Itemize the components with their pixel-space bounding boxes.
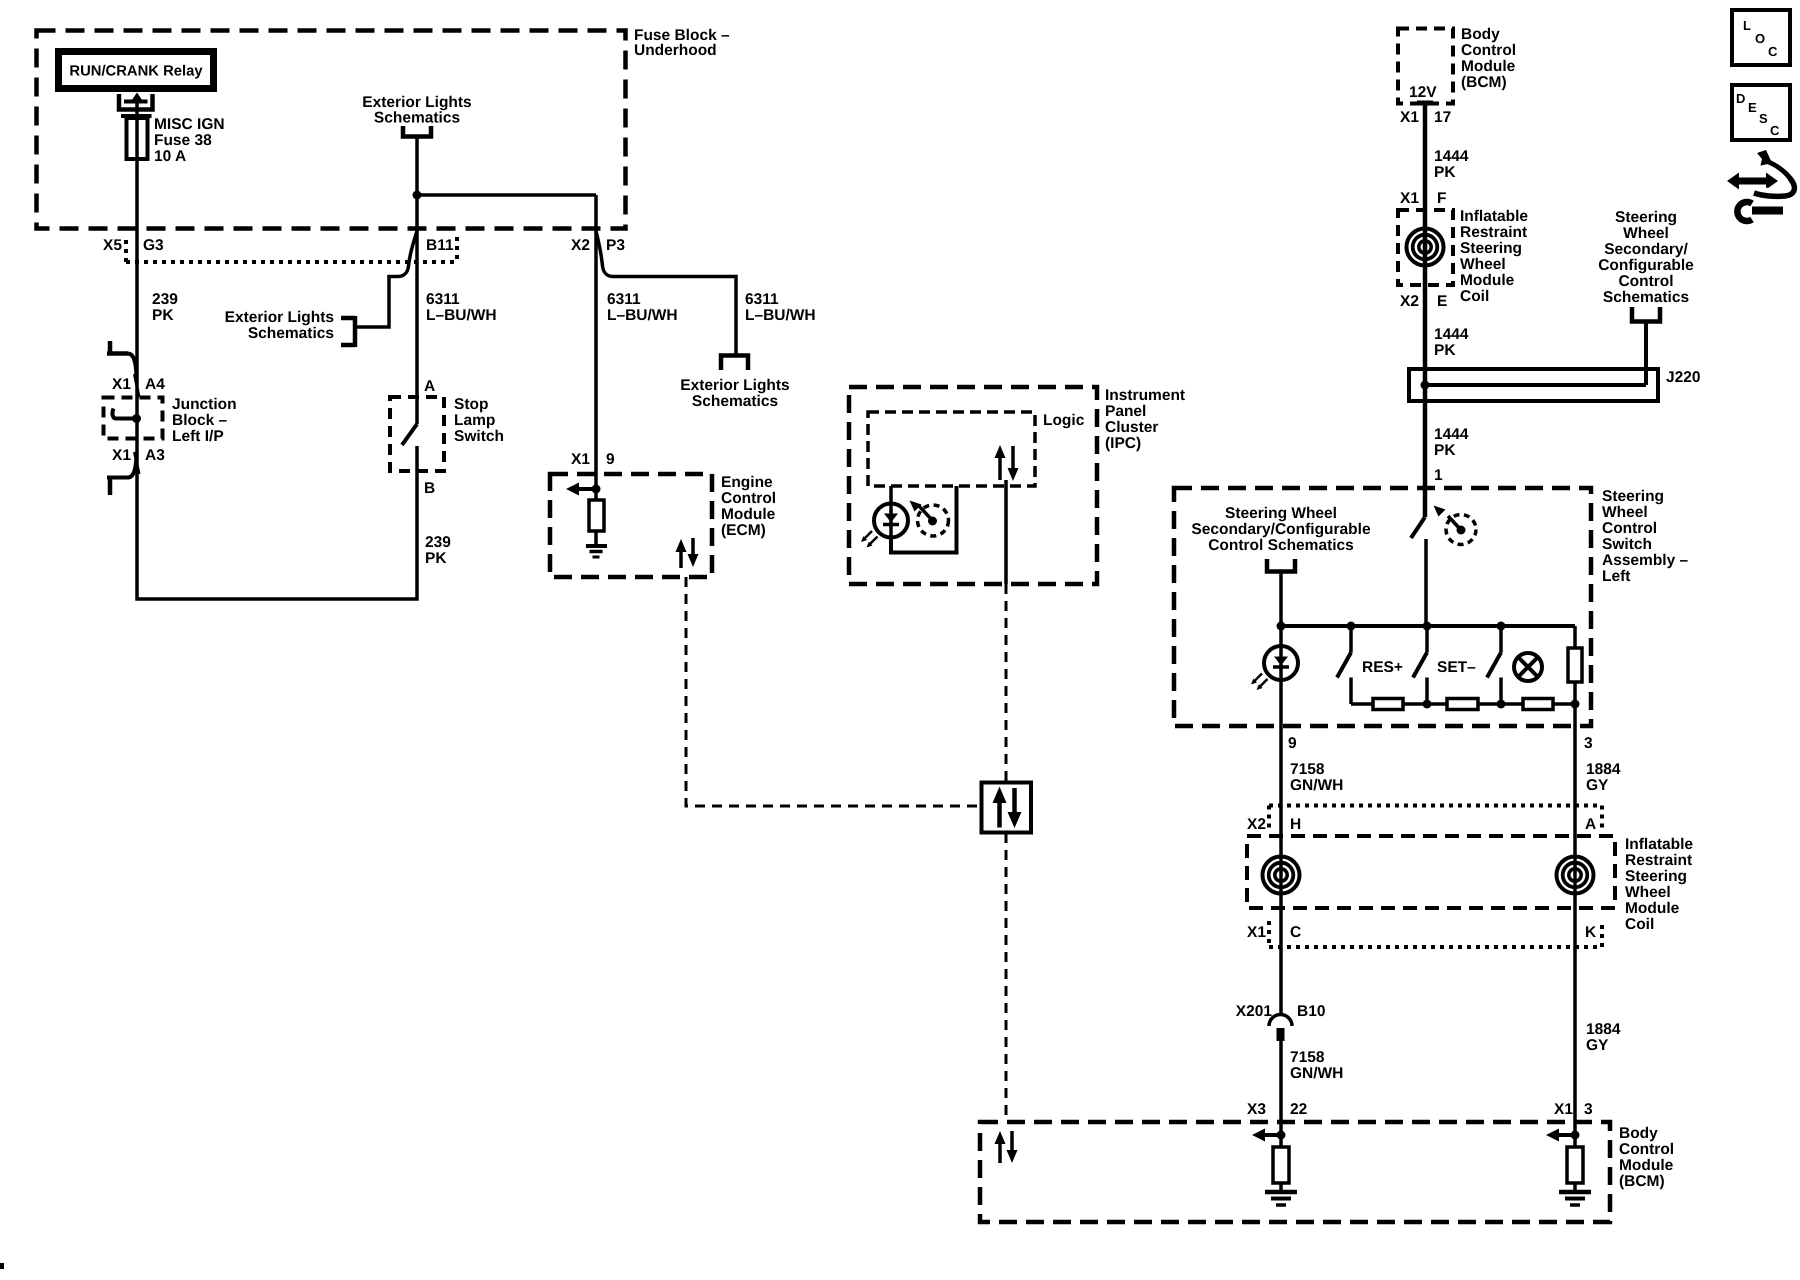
svg-text:1444: 1444 [1434, 426, 1469, 443]
serial data dashed wire IPC down [1005, 584, 1008, 782]
ECM internal node dot [592, 485, 601, 494]
svg-text:B10: B10 [1297, 1003, 1325, 1020]
svg-text:22: 22 [1290, 1101, 1307, 1118]
svg-text:L: L [1743, 18, 1751, 33]
SRS coil spiral lower left [1263, 857, 1300, 894]
ladder resistor R1 [1373, 699, 1403, 710]
node dot bus third [1497, 622, 1506, 631]
svg-text:C: C [1290, 924, 1301, 941]
wire label 6311 L-BU/WH at B11 [426, 291, 497, 324]
steering wheel secondary schematics label inner [1191, 505, 1371, 554]
svg-text:1444: 1444 [1434, 326, 1469, 343]
BCM label lower [1619, 1125, 1674, 1190]
svg-text:GN/WH: GN/WH [1290, 1065, 1343, 1082]
fuse F38 value label [154, 116, 225, 165]
svg-text:X1: X1 [1554, 1101, 1573, 1118]
svg-text:Left I/P: Left I/P [172, 428, 224, 445]
svg-text:Lamp: Lamp [454, 412, 495, 429]
svg-text:RES+: RES+ [1362, 659, 1403, 676]
splice pack J220 [1409, 369, 1658, 401]
wire label 1444 PK third [1434, 426, 1469, 459]
third switch [1487, 626, 1501, 704]
svg-text:Schematics: Schematics [692, 393, 778, 410]
wire to ground left [1279, 1183, 1283, 1192]
svg-text:J220: J220 [1666, 369, 1700, 386]
wire resistor to ground [594, 531, 598, 546]
svg-text:6311: 6311 [426, 291, 460, 308]
legend wrench icon [1737, 202, 1783, 221]
wire junction to P3 [417, 193, 596, 197]
wire switch to bus [1424, 539, 1428, 626]
svg-text:Module: Module [1461, 58, 1516, 75]
wire 6311 down to ECM [594, 195, 598, 500]
svg-text:Stop: Stop [454, 396, 488, 413]
cruise on-off gauge symbol [1446, 515, 1476, 545]
svg-text:Body: Body [1461, 26, 1500, 43]
svg-text:Assembly –: Assembly – [1602, 552, 1689, 569]
svg-text:Coil: Coil [1625, 916, 1654, 933]
svg-text:X1: X1 [1247, 924, 1266, 941]
svg-text:X3: X3 [1247, 1101, 1266, 1118]
vertical resistor right branch [1568, 648, 1582, 682]
svg-text:GY: GY [1586, 1037, 1609, 1054]
svg-text:9: 9 [1288, 735, 1297, 752]
svg-text:A: A [1585, 816, 1596, 833]
IP harness connector dotted line [126, 237, 457, 262]
svg-text:G3: G3 [143, 237, 164, 254]
svg-text:MISC IGN: MISC IGN [154, 116, 225, 133]
exterior lights schematics label top [362, 94, 471, 127]
svg-text:1444: 1444 [1434, 148, 1469, 165]
svg-text:Exterior Lights: Exterior Lights [680, 377, 789, 394]
wire label 6311 L-BU/WH right branch [745, 291, 816, 324]
ECM label [721, 474, 776, 539]
stop lamp switch label [454, 396, 504, 445]
BCM 12V source dashed box [1398, 29, 1453, 104]
svg-text:X2: X2 [571, 237, 590, 254]
connector clip lower [107, 455, 137, 495]
BCM serial data arrows [995, 1131, 1018, 1163]
svg-text:Control: Control [721, 490, 776, 507]
BCM output tick [1417, 101, 1433, 106]
exterior lights schematics label right [680, 377, 789, 410]
svg-text:Control: Control [1619, 1141, 1674, 1158]
svg-text:Wheel: Wheel [1623, 225, 1669, 242]
steering wheel secondary schematics label top right [1598, 209, 1694, 306]
svg-text:Fuse 38: Fuse 38 [154, 132, 212, 149]
svg-text:Configurable: Configurable [1598, 257, 1694, 274]
wire jog at B11 to left branch [357, 231, 417, 327]
svg-text:Body: Body [1619, 1125, 1658, 1142]
svg-text:Schematics: Schematics [374, 110, 460, 127]
svg-text:Restraint: Restraint [1625, 852, 1692, 869]
wire label 7158 GN/WH lower [1290, 1049, 1343, 1082]
svg-text:12V: 12V [1409, 84, 1437, 101]
svg-text:Control Schematics: Control Schematics [1208, 537, 1354, 554]
svg-text:Module: Module [1625, 900, 1680, 917]
cruise on-off switch actuation arrow [1434, 506, 1446, 517]
resistor ladder row wire [1351, 702, 1575, 706]
svg-text:Inflatable: Inflatable [1460, 208, 1528, 225]
node junction dot [413, 191, 422, 200]
svg-text:P3: P3 [606, 237, 625, 254]
svg-text:Schematics: Schematics [1603, 289, 1689, 306]
svg-text:X1: X1 [571, 451, 590, 468]
svg-text:Control: Control [1618, 273, 1673, 290]
node dot bus SET [1423, 622, 1432, 631]
svg-text:Schematics: Schematics [248, 325, 334, 342]
wire label 6311 L-BU/WH at P3 [607, 291, 678, 324]
svg-text:Control: Control [1461, 42, 1516, 59]
SRS coil dashed box upper [1398, 210, 1453, 285]
relay contact symbol [119, 93, 153, 110]
IPC gauge symbol [910, 501, 949, 537]
serial data dashed wire ECM to gateway [686, 577, 981, 806]
svg-text:X1: X1 [112, 447, 131, 464]
svg-text:E: E [1437, 293, 1447, 310]
svg-text:GY: GY [1586, 777, 1609, 794]
cruise on-off switch blade [1411, 517, 1425, 538]
svg-text:17: 17 [1434, 109, 1451, 126]
svg-text:X2: X2 [1400, 293, 1419, 310]
svg-text:239: 239 [425, 534, 451, 551]
LOC legend box [1732, 10, 1790, 65]
junction block label [172, 396, 237, 445]
legend two-way arrow icon [1727, 150, 1794, 196]
svg-text:Secondary/Configurable: Secondary/Configurable [1191, 521, 1371, 538]
BCM right resistor [1567, 1147, 1583, 1183]
BCM dashed box lower [980, 1122, 1610, 1222]
svg-text:PK: PK [1434, 342, 1456, 359]
svg-text:X1: X1 [1400, 109, 1419, 126]
wire jog at P3 to right branch [596, 231, 736, 355]
svg-text:Exterior Lights: Exterior Lights [362, 94, 471, 111]
BCM left signal arrow [1252, 1129, 1281, 1142]
svg-text:3: 3 [1584, 735, 1593, 752]
svg-text:(BCM): (BCM) [1461, 74, 1507, 91]
svg-text:L–BU/WH: L–BU/WH [745, 307, 816, 324]
svg-text:H: H [1290, 816, 1301, 833]
BCM right input node dot [1571, 1131, 1580, 1140]
page edge mark [0, 1263, 4, 1269]
wire label 1444 PK [1434, 148, 1469, 181]
svg-text:6311: 6311 [607, 291, 641, 308]
svg-text:(BCM): (BCM) [1619, 1173, 1665, 1190]
SRS coil label upper [1460, 208, 1528, 305]
switch assembly label [1602, 488, 1689, 585]
fuse F38 MISC IGN 10A [121, 116, 152, 159]
svg-text:7158: 7158 [1290, 761, 1325, 778]
wire resistor to row [1573, 682, 1577, 704]
junction block terminal symbol [112, 409, 141, 424]
svg-text:X5: X5 [103, 237, 122, 254]
ECM pull-up resistor [589, 500, 604, 531]
svg-text:(ECM): (ECM) [721, 522, 766, 539]
svg-text:Module: Module [721, 506, 776, 523]
svg-text:6311: 6311 [745, 291, 779, 308]
svg-text:Engine: Engine [721, 474, 773, 491]
svg-text:X201: X201 [1236, 1003, 1273, 1020]
wire label 1884 GY lower [1586, 1021, 1621, 1054]
IPC indicator loop wire [891, 486, 957, 553]
svg-text:Secondary/: Secondary/ [1604, 241, 1688, 258]
svg-text:Control: Control [1602, 520, 1657, 537]
svg-text:PK: PK [1434, 442, 1456, 459]
svg-text:E: E [1748, 100, 1757, 115]
switch LED indicator [1251, 646, 1298, 690]
svg-text:Module: Module [1460, 272, 1515, 289]
wire 7158 GN/WH left leg [1279, 572, 1283, 1016]
node dot row right [1571, 700, 1580, 709]
svg-text:9: 9 [606, 451, 615, 468]
wire jog at X1 A4 [135, 374, 140, 397]
BCM right ground [1559, 1192, 1591, 1205]
svg-text:Exterior Lights: Exterior Lights [225, 309, 334, 326]
wire label 1444 PK second [1434, 326, 1469, 359]
svg-text:GN/WH: GN/WH [1290, 777, 1343, 794]
svg-text:D: D [1736, 91, 1745, 106]
ladder resistor R2 [1447, 699, 1478, 710]
wire label 1884 GY [1586, 761, 1621, 794]
wire logic to IPC edge [1004, 480, 1008, 584]
svg-text:Block –: Block – [172, 412, 228, 429]
svg-text:RUN/CRANK Relay: RUN/CRANK Relay [69, 64, 203, 80]
off-page bracket steering wheel top right [1632, 307, 1660, 322]
relay K RUN/CRANK Relay label box [59, 52, 214, 89]
ECM internal ground [586, 546, 607, 557]
gateway arrows [993, 787, 1022, 829]
BCM top label [1461, 26, 1516, 91]
coil connector dotted line X2 [1269, 806, 1602, 832]
svg-text:C: C [1768, 44, 1778, 59]
coil connector dotted line X1 [1269, 921, 1602, 947]
svg-text:Module: Module [1619, 1157, 1674, 1174]
svg-text:SET–: SET– [1437, 659, 1476, 676]
svg-text:A3: A3 [145, 447, 165, 464]
wire 1884 GY right leg [1573, 704, 1577, 1147]
svg-text:L–BU/WH: L–BU/WH [426, 307, 497, 324]
svg-text:Switch: Switch [1602, 536, 1652, 553]
svg-text:Cluster: Cluster [1105, 419, 1158, 436]
BCM left input node dot [1277, 1131, 1286, 1140]
svg-text:C: C [1770, 123, 1780, 138]
svg-text:3: 3 [1584, 1101, 1593, 1118]
svg-text:Steering: Steering [1615, 209, 1677, 226]
svg-text:X1: X1 [1400, 190, 1419, 207]
svg-text:Inflatable: Inflatable [1625, 836, 1693, 853]
svg-text:Steering: Steering [1602, 488, 1664, 505]
svg-text:Logic: Logic [1043, 412, 1085, 429]
ECM signal arrow [566, 483, 596, 496]
connector clip upper [107, 341, 137, 377]
svg-text:Coil: Coil [1460, 288, 1489, 305]
svg-text:PK: PK [152, 307, 174, 324]
stop lamp switch dashed box [390, 397, 444, 471]
wire relay to fuse [135, 102, 139, 161]
BCM right signal arrow [1546, 1129, 1575, 1142]
pass-through connector X201 B10 [1269, 1015, 1292, 1042]
off-page bracket exterior lights top [403, 126, 431, 137]
svg-text:F: F [1437, 190, 1446, 207]
IPC indicator branch wire [889, 486, 893, 537]
wire jog at X1 A3 [135, 452, 140, 474]
svg-text:B11: B11 [426, 237, 454, 254]
svg-text:X1: X1 [112, 376, 131, 393]
svg-text:Junction: Junction [172, 396, 237, 413]
svg-text:Wheel: Wheel [1460, 256, 1506, 273]
node dot row third [1497, 700, 1506, 709]
svg-text:PK: PK [425, 550, 447, 567]
SRS coil module label lower [1625, 836, 1693, 933]
svg-text:A4: A4 [145, 376, 165, 393]
wire to ground right [1573, 1183, 1577, 1192]
SRS coil spiral lower right [1557, 857, 1594, 894]
SET- switch [1413, 626, 1427, 704]
svg-text:10 A: 10 A [154, 148, 186, 165]
ladder resistor R3 [1523, 699, 1553, 710]
wire label 7158 GN/WH [1290, 761, 1343, 794]
node dot bus LED [1277, 622, 1286, 631]
off-page bracket exterior lights right [721, 356, 748, 371]
SRS coil module dashed box lower [1247, 836, 1615, 908]
wire label 239 PK [152, 291, 178, 324]
fuse block - underhood dashed box [37, 31, 626, 229]
BCM left resistor [1273, 1147, 1289, 1183]
DESC legend box [1732, 85, 1790, 140]
logic serial data arrows [995, 445, 1019, 481]
illumination lamp symbol [1514, 653, 1542, 681]
svg-text:Panel: Panel [1105, 403, 1146, 420]
exterior lights schematics label left [225, 309, 334, 342]
ECM serial data arrows [676, 538, 699, 568]
wire 239 PK from fuse down and right to stop lamp switch B [137, 161, 417, 599]
wire bracket to J220 [1644, 322, 1648, 385]
steering wheel control switch assembly dashed box [1174, 488, 1591, 726]
svg-text:X2: X2 [1247, 816, 1266, 833]
ECM dashed box [550, 474, 712, 577]
svg-text:Steering: Steering [1460, 240, 1522, 257]
svg-text:K: K [1585, 924, 1597, 941]
node dot bus RES [1347, 622, 1356, 631]
svg-text:Left: Left [1602, 568, 1630, 585]
BCM left ground [1265, 1192, 1297, 1205]
svg-text:S: S [1759, 111, 1768, 126]
svg-text:(IPC): (IPC) [1105, 435, 1141, 452]
wire X201 to BCM [1279, 1041, 1283, 1147]
svg-text:1884: 1884 [1586, 1021, 1621, 1038]
right branch wire to resistor [1573, 626, 1577, 648]
svg-text:Underhood: Underhood [634, 42, 717, 59]
svg-text:1884: 1884 [1586, 761, 1621, 778]
IPC logic dashed box [868, 412, 1035, 486]
svg-text:O: O [1755, 31, 1765, 46]
RES+ switch [1337, 626, 1351, 704]
svg-text:B: B [424, 480, 435, 497]
off-page bracket exterior lights left [341, 316, 355, 347]
svg-text:239: 239 [152, 291, 178, 308]
IPC indicator LED [861, 504, 908, 548]
svg-text:Wheel: Wheel [1602, 504, 1648, 521]
svg-text:7158: 7158 [1290, 1049, 1325, 1066]
wire 1444 PK main vertical [1423, 103, 1428, 517]
stop lamp switch blade [402, 424, 417, 445]
junction block - left I/P dashed box [104, 398, 163, 439]
serial data gateway box [982, 783, 1032, 833]
svg-text:Restraint: Restraint [1460, 224, 1527, 241]
svg-text:Switch: Switch [454, 428, 504, 445]
wire 6311 main vertical to stop lamp switch [415, 137, 419, 424]
serial data dashed wire gateway to BCM [1005, 833, 1008, 1122]
svg-text:PK: PK [1434, 164, 1456, 181]
svg-text:A: A [424, 378, 435, 395]
SRS coil spiral upper [1407, 229, 1444, 266]
svg-text:1: 1 [1434, 467, 1443, 484]
svg-text:Steering: Steering [1625, 868, 1687, 885]
switch assembly bus wire [1281, 624, 1575, 628]
node dot row SET [1423, 700, 1432, 709]
svg-text:Steering Wheel: Steering Wheel [1225, 505, 1337, 522]
wire label 239 PK below switch [425, 534, 451, 567]
off-page bracket inner [1267, 559, 1295, 572]
svg-text:Wheel: Wheel [1625, 884, 1671, 901]
fuse block - underhood label [634, 27, 730, 59]
IPC label [1105, 387, 1185, 452]
svg-text:Instrument: Instrument [1105, 387, 1185, 404]
svg-text:L–BU/WH: L–BU/WH [607, 307, 678, 324]
IPC dashed box [849, 387, 1097, 584]
